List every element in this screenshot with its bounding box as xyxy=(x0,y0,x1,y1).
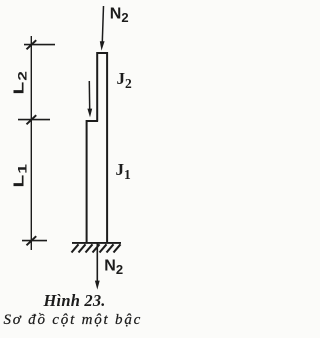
svg-text:Hình 23.: Hình 23. xyxy=(43,291,106,310)
svg-text:L1: L1 xyxy=(11,163,30,187)
svg-text:N2: N2 xyxy=(104,258,123,278)
svg-text:N2: N2 xyxy=(110,6,129,26)
svg-text:J1: J1 xyxy=(116,160,132,182)
svg-text:J2: J2 xyxy=(117,69,133,91)
svg-text:L2: L2 xyxy=(11,70,30,94)
svg-text:Sơ đồ cột một bậc: Sơ đồ cột một bậc xyxy=(4,312,143,328)
